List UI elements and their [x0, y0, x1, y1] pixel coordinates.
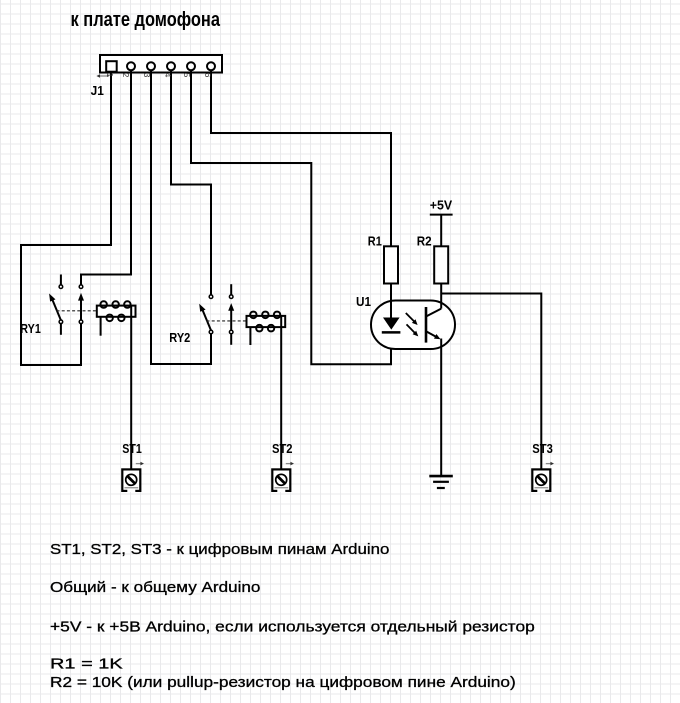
RY2 moving contact top circle: [229, 295, 233, 299]
RY2 coil right lead / wire to ST2: [280, 316, 282, 469]
wire pin2 to RY1 contact top: [81, 71, 131, 285]
pin number labels: [105, 73, 213, 78]
optocoupler U1 body: [371, 301, 455, 350]
note text block: [50, 541, 535, 691]
RY2 linkage dashed line: [207, 320, 247, 322]
RY2 coil turns bottom: [256, 325, 262, 332]
svg-text:+5V: +5V: [430, 197, 453, 212]
RY2 coil body: [247, 316, 286, 327]
svg-text:ST1: ST1: [122, 441, 142, 456]
svg-text:ST2: ST2: [272, 441, 293, 456]
RY2 fixed contact bottom circle: [209, 330, 213, 334]
RY2 fixed contact top circle: [209, 295, 213, 299]
RY1 coil body: [97, 306, 136, 317]
+5V power bar: [430, 214, 453, 216]
phototransistor emitter: [426, 331, 441, 339]
svg-text:+5V - к +5В Arduino, если испо: +5V - к +5В Arduino, если используется о…: [50, 619, 535, 636]
RY1 linkage dashed line: [57, 310, 97, 312]
svg-text:Общий - к общему Arduino: Общий - к общему Arduino: [50, 579, 260, 596]
svg-text:ST1, ST2, ST3 - к цифровым пин: ST1, ST2, ST3 - к цифровым пинам Arduino: [50, 541, 389, 558]
wire pin4 to RY2 contact top: [171, 71, 211, 295]
svg-text:2: 2: [121, 73, 131, 78]
svg-text:R1 = 1K: R1 = 1K: [50, 656, 123, 673]
LED anode lead inside U1: [390, 300, 392, 318]
ST1 pointer mark: [136, 463, 142, 465]
RY1 fixed contact stub top: [60, 275, 62, 285]
terminal ST3: [532, 462, 554, 492]
ground: [429, 476, 453, 488]
svg-text:U1: U1: [356, 294, 371, 309]
phototransistor collector: [426, 309, 441, 317]
connector J1 pin 1 (square): [106, 61, 117, 71]
connector J1 body: [100, 55, 222, 73]
RY1 fixed contact stub bottom: [60, 324, 62, 335]
svg-text:R2 = 10K (или pullup-резистор: R2 = 10K (или pullup-резистор на цифрово…: [50, 674, 516, 691]
wire pin6 to R1: [211, 71, 391, 246]
wire pin5 common net to LED cathode: [191, 71, 391, 364]
terminal ST2: [272, 462, 294, 492]
terminal ST1: [122, 462, 144, 492]
light arrow 1: [406, 313, 418, 325]
connector J1 pin 4: [167, 62, 175, 70]
relay RY1: [49, 275, 135, 470]
wire R2 to collector node: [440, 284, 442, 309]
RY2 coil turns top: [250, 312, 256, 319]
connector J1 pin 5: [187, 62, 195, 70]
RY1 coil turns bottom: [107, 315, 113, 322]
RY2 moving contact stub bottom: [230, 334, 232, 345]
svg-text:RY1: RY1: [20, 321, 41, 336]
wire +5V to R2: [440, 215, 442, 247]
RY2 moving contact arrow: [230, 310, 232, 330]
RY1 moving contact bottom circle: [79, 320, 83, 324]
RY1 armature arm: [53, 300, 61, 320]
ST3 pointer mark: [546, 463, 552, 465]
svg-text:6: 6: [203, 73, 213, 78]
connector J1 pin 3: [147, 62, 155, 70]
light arrow 2: [407, 324, 419, 336]
connector J1 pin 6: [207, 62, 215, 70]
phototransistor base bar: [425, 307, 428, 343]
svg-text:5: 5: [182, 73, 192, 78]
connector pointer mark: [96, 74, 109, 78]
RY1 moving contact top circle: [79, 285, 83, 289]
wire emitter to ground: [440, 339, 442, 477]
RY2 armature arm: [203, 310, 211, 330]
RY2 coil left lead: [249, 327, 251, 345]
RY1 moving contact arrow: [80, 300, 82, 320]
wire R1 to LED anode: [390, 284, 392, 318]
resistor R2: [434, 246, 448, 283]
ST2 pointer mark: [286, 463, 292, 465]
svg-text:J1: J1: [91, 83, 104, 98]
wire pin1 to RY1 common rail: [21, 71, 111, 365]
svg-text:1: 1: [105, 73, 115, 78]
RY2 moving contact stub top: [230, 284, 232, 295]
RY1 fixed contact top circle: [59, 285, 63, 289]
svg-text:ST3: ST3: [532, 441, 553, 456]
svg-text:4: 4: [163, 73, 173, 78]
svg-text:3: 3: [142, 73, 152, 78]
svg-text:R1: R1: [368, 233, 382, 248]
RY1 coil left lead: [100, 317, 102, 336]
RY2 moving contact bottom circle: [229, 330, 233, 334]
svg-text:R2: R2: [417, 233, 432, 248]
resistor R1: [384, 246, 398, 283]
relay RY2: [199, 284, 285, 469]
RY1 coil right lead / wire to ST1: [130, 306, 132, 469]
svg-text:RY2: RY2: [169, 330, 190, 345]
svg-text:к плате домофона: к плате домофона: [71, 9, 221, 31]
wire collector node to ST3: [441, 294, 541, 470]
LED cathode bar: [382, 331, 401, 334]
RY1 fixed contact bottom circle: [59, 320, 63, 324]
wire pin3 to RY2 bottom rail: [151, 71, 211, 364]
RY1 coil turns top: [101, 301, 107, 308]
LED triangle: [383, 318, 400, 330]
connector J1 pin 2: [127, 62, 135, 70]
